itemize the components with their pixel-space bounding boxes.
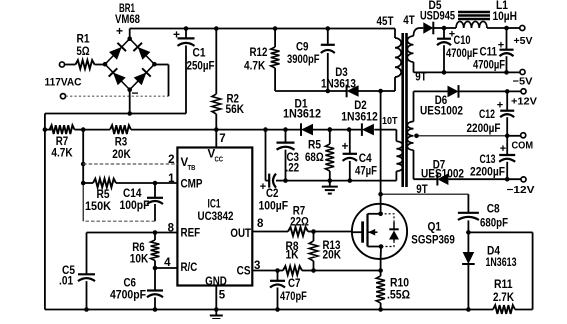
- svg-text:D2: D2: [354, 100, 367, 112]
- label R5 150K: [85, 189, 112, 213]
- svg-text:3: 3: [254, 260, 260, 272]
- wire: left rail: [44, 114, 46, 310]
- label D1: [283, 99, 321, 121]
- label D5: [420, 0, 455, 23]
- svg-text:4700pF: 4700pF: [110, 290, 146, 302]
- transformer secondary 9T/9T: [407, 122, 419, 151]
- wire: OUT stub: [252, 231, 288, 233]
- label -5V: [513, 76, 533, 88]
- transistor Q1 SGSP369: [352, 204, 407, 259]
- label pin 4: [164, 257, 171, 269]
- svg-text:4700µF: 4700µF: [446, 48, 478, 60]
- svg-text:8: 8: [257, 218, 264, 230]
- label IC1: [198, 199, 234, 224]
- wire: 10T bottom to ground row: [350, 171, 396, 180]
- wire: FB node vertical: [81, 130, 86, 186]
- wire: -12V row: [448, 178, 521, 180]
- inductor L1 10uH: [444, 21, 509, 30]
- svg-text:−: −: [131, 86, 138, 100]
- label L1: [493, 0, 518, 23]
- diode D2 1N3612: [362, 123, 374, 136]
- label D6: [420, 95, 463, 118]
- svg-text:C7: C7: [288, 278, 301, 290]
- label C11 plus: [498, 40, 504, 52]
- svg-text:47µF: 47µF: [355, 166, 377, 178]
- terminal COM: [521, 133, 526, 138]
- label COM: [512, 140, 534, 152]
- svg-text:R10: R10: [390, 278, 409, 290]
- diode D7 UES1002: [437, 173, 448, 186]
- svg-text:2200µF: 2200µF: [467, 123, 501, 135]
- svg-text:.01: .01: [59, 276, 74, 288]
- wire: CS stub: [252, 268, 283, 273]
- svg-text:CS: CS: [237, 266, 251, 278]
- capacitor C2 100uF: [266, 130, 286, 188]
- svg-text:C11: C11: [480, 47, 498, 59]
- transformer core: [403, 33, 407, 187]
- svg-text:2: 2: [168, 154, 174, 166]
- svg-text:USD945: USD945: [420, 11, 455, 23]
- wire: upper 9T top to D6: [414, 91, 448, 121]
- svg-text:C6: C6: [124, 278, 137, 290]
- resistor R5 150K: [83, 179, 157, 188]
- diode D1 1N3612: [301, 123, 313, 136]
- wire: drain to C8: [381, 193, 469, 195]
- svg-text:R1: R1: [77, 34, 91, 46]
- diode D3 1N3613: [347, 85, 359, 98]
- label R1: [76, 34, 90, 59]
- svg-text:R3: R3: [115, 137, 128, 149]
- label R7 22: [290, 206, 309, 229]
- wire: C1 negative lead: [185, 46, 187, 114]
- capacitor C1: [178, 29, 195, 46]
- resistor R3 20K: [83, 125, 216, 134]
- svg-text:UC3842: UC3842: [198, 211, 234, 223]
- svg-text:C2: C2: [266, 188, 279, 200]
- wire: snubber row: [275, 90, 347, 92]
- svg-text:1K: 1K: [285, 250, 299, 262]
- svg-text:IC1: IC1: [208, 199, 221, 211]
- label C2 plus: [260, 181, 266, 193]
- svg-text:1: 1: [168, 173, 175, 185]
- svg-text:D4: D4: [487, 246, 501, 258]
- label pin 3: [254, 260, 260, 272]
- label R10: [387, 278, 410, 302]
- svg-text:7: 7: [219, 133, 225, 145]
- svg-text:C12: C12: [479, 109, 495, 121]
- label D2: [341, 100, 378, 124]
- label D3: [321, 67, 356, 91]
- label pin 7: [219, 133, 225, 145]
- svg-text:+: +: [497, 100, 503, 112]
- label R6: [130, 242, 149, 266]
- capacitor C4 47uF: [343, 130, 357, 183]
- svg-text:+: +: [498, 40, 504, 52]
- svg-text:C10: C10: [454, 35, 471, 47]
- label 9T lower: [416, 184, 427, 196]
- label C13 plus: [500, 143, 506, 155]
- svg-text:+: +: [342, 141, 349, 153]
- svg-text:D3: D3: [335, 67, 348, 79]
- svg-text:56K: 56K: [226, 104, 245, 116]
- label C4: [355, 153, 377, 178]
- svg-text:+: +: [116, 24, 123, 38]
- wire: pin4 stub: [155, 267, 177, 269]
- label C10 plus: [449, 29, 455, 41]
- capacitor C11 4700uF: [500, 28, 514, 75]
- svg-text:4: 4: [164, 257, 171, 269]
- svg-text:100pF: 100pF: [120, 200, 150, 212]
- resistor R1: [65, 60, 105, 69]
- capacitor C14 100pF: [147, 183, 163, 221]
- bridge rectifier BR1: [103, 36, 157, 92]
- wire: C14 loop: [83, 183, 155, 221]
- label pin 8 right: [257, 218, 264, 230]
- svg-text:68Ω: 68Ω: [305, 152, 324, 164]
- svg-text:C9: C9: [296, 42, 309, 54]
- wire: source vertical: [380, 259, 382, 271]
- capacitor C7 470pF: [270, 271, 285, 312]
- svg-text:C1: C1: [193, 48, 207, 60]
- svg-text:8: 8: [168, 223, 175, 235]
- wire: drain vertical: [378, 91, 383, 204]
- resistor R7 4.7K: [45, 125, 86, 134]
- label Vcc: [208, 149, 224, 164]
- label 9T upper: [415, 72, 426, 84]
- capacitor C10 4700uF: [437, 28, 451, 75]
- ground symbol at IC: [210, 310, 223, 323]
- wire: gate wire: [314, 231, 353, 233]
- wire: row left segment: [43, 127, 48, 132]
- svg-text:680pF: 680pF: [480, 218, 508, 230]
- svg-text:20K: 20K: [112, 149, 131, 161]
- terminal -5V: [520, 69, 525, 74]
- op-amp-box IC1 UC3842: [177, 148, 252, 286]
- svg-text:−5V: −5V: [513, 76, 533, 88]
- label +12V: [511, 96, 537, 108]
- label bridge minus: [131, 86, 138, 100]
- wire: Vcc pin stub: [215, 130, 217, 148]
- svg-text:470pF: 470pF: [280, 291, 307, 303]
- label Q1: [411, 222, 455, 247]
- terminal +12V: [521, 89, 526, 94]
- label C12: [467, 109, 501, 135]
- resistor R10 .55: [376, 271, 385, 312]
- svg-text:R11: R11: [494, 279, 513, 291]
- svg-text:+12V: +12V: [511, 96, 537, 108]
- wire: +5V output: [507, 27, 520, 29]
- wire: COM tap row: [417, 135, 507, 137]
- svg-text:150K: 150K: [85, 201, 112, 213]
- label R12: [244, 47, 267, 73]
- wire: -5V rail: [414, 71, 520, 73]
- svg-text:Q1: Q1: [428, 222, 442, 234]
- resistor R11 2.7K: [493, 305, 533, 314]
- svg-text:COM: COM: [512, 140, 534, 152]
- wire: bottom ground rail: [45, 309, 493, 311]
- label C7: [280, 278, 307, 303]
- resistor R5 68ohm: [325, 127, 334, 183]
- svg-text:−12V: −12V: [507, 184, 535, 196]
- inductor L1 core bars: [458, 12, 490, 19]
- wire: negative bus: [45, 113, 186, 115]
- svg-text:OUT: OUT: [230, 228, 251, 240]
- wire: bridge top to DC+ rail: [129, 29, 131, 39]
- svg-text:R/C: R/C: [181, 262, 198, 274]
- terminal: 117VAC neutral: [60, 94, 65, 99]
- svg-text:9T: 9T: [416, 184, 427, 196]
- label R13: [323, 240, 342, 262]
- svg-text:20K: 20K: [323, 250, 342, 262]
- diode D6 UES1002: [448, 85, 459, 98]
- diode D4 1N3613: [462, 232, 475, 311]
- svg-text:R7: R7: [56, 136, 69, 148]
- label bridge plus: [116, 24, 123, 38]
- svg-text:22Ω: 22Ω: [290, 217, 309, 229]
- diode D5 USD945: [420, 22, 446, 35]
- svg-text:R5: R5: [308, 140, 322, 152]
- wire: neutral to bridge right corner: [66, 65, 169, 97]
- svg-text:C8: C8: [487, 204, 501, 216]
- terminal +5V: [520, 25, 525, 30]
- capacitor C8 680pF: [458, 194, 479, 235]
- svg-text:TB: TB: [188, 165, 196, 172]
- svg-text:4T: 4T: [403, 15, 414, 27]
- svg-text:1N3612: 1N3612: [283, 109, 321, 121]
- resistor R8 1K: [283, 266, 314, 275]
- label OUT: [230, 228, 251, 240]
- resistor R13 20K: [309, 232, 318, 273]
- ground symbol primary: [322, 181, 338, 194]
- label C3: [286, 152, 300, 175]
- label R/C: [181, 262, 198, 274]
- wire: CS to source: [314, 268, 383, 273]
- svg-text:10T: 10T: [382, 115, 398, 127]
- wire: 117VAC hot terminal to R1: [59, 62, 64, 67]
- svg-text:2.7K: 2.7K: [493, 292, 515, 304]
- svg-text:10K: 10K: [130, 254, 149, 266]
- label D7: [421, 160, 464, 181]
- label pin 2: [168, 154, 174, 166]
- svg-text:+: +: [173, 28, 180, 42]
- label R8: [285, 241, 299, 262]
- label 4T: [403, 15, 414, 27]
- capacitor C9 3900pF: [321, 29, 335, 94]
- wire: +12V row: [459, 89, 521, 94]
- svg-text:SGSP369: SGSP369: [411, 234, 455, 246]
- wire: REF row: [87, 230, 178, 235]
- svg-text:4.7K: 4.7K: [244, 61, 266, 73]
- resistor R12 4.7K: [271, 29, 280, 92]
- label R2: [226, 94, 245, 117]
- label C1 plus: [173, 28, 180, 42]
- label 45T: [377, 16, 394, 28]
- svg-text:R5: R5: [97, 189, 111, 201]
- label BR1: [115, 3, 140, 26]
- svg-text:+5V: +5V: [514, 35, 533, 47]
- label R5 68: [305, 140, 324, 165]
- label pin 5: [219, 290, 226, 302]
- svg-text:C14: C14: [123, 188, 142, 200]
- svg-text:CC: CC: [215, 157, 224, 164]
- label R3: [112, 137, 131, 162]
- wire: D3 anode to primary bottom: [358, 89, 395, 94]
- svg-text:C4: C4: [359, 153, 373, 165]
- svg-text:4.7K: 4.7K: [51, 148, 73, 160]
- svg-text:100µF: 100µF: [259, 201, 289, 213]
- wire: snubber loop: [468, 232, 532, 309]
- label R7: [51, 136, 73, 160]
- label CS: [237, 266, 251, 278]
- wire: pin1 stub: [155, 182, 177, 184]
- svg-text:10µH: 10µH: [493, 11, 518, 23]
- label 117VAC: [45, 77, 82, 89]
- svg-text:C13: C13: [480, 154, 496, 166]
- svg-text:REF: REF: [181, 228, 201, 240]
- svg-text:.22: .22: [286, 163, 300, 175]
- resistor R2 56K: [212, 29, 221, 132]
- wire: lower 9T bottom to D7: [414, 150, 438, 179]
- label C9: [287, 42, 320, 67]
- wire: GND pin stub: [214, 286, 219, 312]
- wire: DC+ top rail: [130, 26, 395, 31]
- capacitor C6 4700pF: [147, 268, 163, 312]
- label C13: [470, 154, 505, 179]
- label C10: [446, 35, 478, 60]
- wire: primary ground row: [286, 180, 351, 182]
- resistor R6 10K: [151, 233, 160, 271]
- svg-text:CMP: CMP: [181, 179, 203, 191]
- label C1: [187, 48, 215, 73]
- svg-text:1N3613: 1N3613: [486, 257, 517, 269]
- svg-text:+: +: [500, 143, 506, 155]
- svg-text:5: 5: [219, 290, 226, 302]
- svg-text:45T: 45T: [377, 16, 394, 28]
- label C11: [473, 47, 505, 72]
- label C6: [110, 278, 146, 302]
- label +5V: [514, 35, 533, 47]
- svg-text:2200µF: 2200µF: [470, 167, 505, 179]
- label pin 8 left: [168, 223, 175, 235]
- label Vtb: [181, 157, 196, 172]
- wire: D1 anode to node: [312, 127, 362, 132]
- svg-text:UES1002: UES1002: [420, 106, 463, 118]
- wire: primary bottom lead: [394, 77, 396, 91]
- transformer secondary 4T: [407, 28, 420, 72]
- capacitor C13 2200uF: [499, 136, 515, 182]
- label R11: [493, 279, 515, 304]
- wire: Vcc row: [216, 127, 301, 132]
- label C4 plus: [342, 141, 349, 153]
- label pin 1: [168, 173, 175, 185]
- label C5: [59, 265, 76, 288]
- label C12 plus: [497, 100, 503, 112]
- terminal -12V: [521, 177, 526, 182]
- label C8: [480, 204, 508, 230]
- transformer primary 45T: [395, 29, 401, 78]
- svg-text:R6: R6: [132, 242, 145, 254]
- transformer bootstrap winding 10T: [396, 141, 402, 171]
- label -12V: [507, 184, 535, 196]
- label REF: [181, 228, 201, 240]
- svg-text:1N3613: 1N3613: [321, 79, 356, 91]
- wire: C5 branch: [86, 233, 88, 275]
- wire: bridge bottom to negative bus: [127, 90, 132, 116]
- capacitor C12 2200uF: [500, 91, 514, 138]
- label C14: [120, 188, 150, 212]
- svg-text:250µF: 250µF: [187, 61, 215, 73]
- label 10T: [382, 115, 398, 127]
- label GND: [205, 276, 227, 288]
- label D4: [486, 246, 517, 270]
- capacitor C3 0.22: [277, 130, 295, 183]
- svg-text:R12: R12: [250, 47, 268, 59]
- wire: 10T top to D2 row: [374, 130, 396, 142]
- svg-text:.55Ω: .55Ω: [387, 290, 410, 302]
- wire: pin2 row: [83, 163, 177, 165]
- svg-text:5Ω: 5Ω: [76, 46, 89, 58]
- resistor R7 22ohm: [288, 227, 316, 236]
- svg-text:3900pF: 3900pF: [287, 54, 320, 66]
- capacitor C5 .01: [78, 274, 95, 312]
- svg-text:1N3612: 1N3612: [341, 112, 378, 124]
- svg-text:4700µF: 4700µF: [473, 60, 505, 72]
- svg-text:117VAC: 117VAC: [45, 77, 82, 89]
- wire: COM stub: [507, 135, 520, 137]
- label C2: [259, 188, 289, 213]
- label CMP: [181, 179, 203, 191]
